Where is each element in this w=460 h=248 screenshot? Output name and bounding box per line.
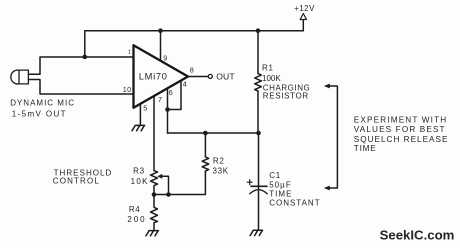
svg-text:TIME: TIME: [269, 190, 292, 199]
svg-text:SeekIC.com: SeekIC.com: [380, 228, 455, 243]
svg-text:1-5mV OUT: 1-5mV OUT: [12, 109, 67, 118]
svg-text:R3: R3: [133, 167, 145, 176]
svg-text:10K: 10K: [131, 177, 149, 186]
svg-text:R4: R4: [129, 205, 140, 214]
svg-text:SQUELCH RELEASE: SQUELCH RELEASE: [354, 135, 449, 144]
svg-text:50µF: 50µF: [269, 181, 292, 190]
svg-text:200: 200: [127, 215, 146, 224]
svg-text:+12V: +12V: [294, 4, 315, 13]
svg-text:33K: 33K: [213, 167, 229, 176]
svg-text:9: 9: [163, 53, 167, 62]
svg-text:10: 10: [123, 85, 132, 94]
svg-text:R2: R2: [213, 157, 225, 166]
svg-text:1: 1: [128, 50, 131, 56]
svg-text:EXPERIMENT WITH: EXPERIMENT WITH: [354, 115, 448, 124]
svg-text:OUT: OUT: [216, 71, 235, 81]
svg-text:RESISTOR: RESISTOR: [263, 92, 309, 101]
svg-text:7: 7: [158, 95, 162, 104]
svg-text:LMi70: LMi70: [139, 71, 168, 81]
svg-text:8: 8: [190, 65, 194, 74]
svg-text:C1: C1: [269, 171, 281, 180]
svg-text:VALUES FOR BEST: VALUES FOR BEST: [354, 125, 446, 134]
svg-text:4: 4: [183, 80, 187, 89]
svg-text:R1: R1: [262, 64, 274, 73]
svg-text:CONTROL: CONTROL: [53, 176, 100, 185]
svg-text:6: 6: [169, 88, 173, 97]
svg-text:TIME: TIME: [354, 144, 377, 153]
svg-text:CONSTANT: CONSTANT: [269, 199, 320, 208]
svg-text:DYNAMIC MIC: DYNAMIC MIC: [10, 99, 75, 108]
svg-text:100K: 100K: [262, 74, 281, 83]
svg-text:5: 5: [143, 103, 147, 112]
